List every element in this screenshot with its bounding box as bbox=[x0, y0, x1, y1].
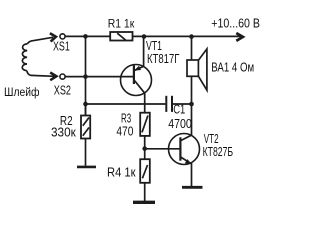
wire C1 left (base bus to C1) bbox=[86, 103, 166, 105]
loop bottom arrowhead bbox=[50, 73, 56, 81]
connector XS1 circle bbox=[60, 34, 65, 39]
svg-text:Шлейф: Шлейф bbox=[4, 85, 40, 99]
ground bar under R4 bbox=[133, 201, 155, 204]
svg-text:R1 1к: R1 1к bbox=[108, 17, 135, 31]
svg-text:R4 1к: R4 1к bbox=[107, 166, 136, 180]
wire R3 to R4 bbox=[144, 136, 146, 159]
capacitor C1 bbox=[166, 96, 172, 112]
connector XS2 circle bbox=[60, 74, 65, 79]
wire top rail left segment (XS1 to R1) bbox=[65, 35, 110, 37]
svg-text:VT1: VT1 bbox=[146, 39, 162, 53]
svg-text:XS2: XS2 bbox=[54, 84, 71, 98]
loop top lead bbox=[27, 37, 53, 44]
svg-text:ВА1 4 Ом: ВА1 4 Ом bbox=[211, 60, 254, 74]
wire R2 to ground bbox=[85, 139, 87, 166]
transistor VT2 circle bbox=[169, 134, 200, 165]
wire supply to speaker bbox=[191, 37, 193, 60]
VT1 lower lead diagonal bbox=[135, 81, 145, 94]
svg-text:VT2: VT2 bbox=[204, 132, 219, 146]
node A junction dot bbox=[83, 34, 88, 39]
svg-text:КТ817Г: КТ817Г bbox=[147, 52, 180, 66]
wire VT2 emitter to ground bbox=[191, 163, 193, 186]
speaker BA1 bbox=[187, 49, 207, 90]
ground bar under R2 bbox=[77, 166, 96, 169]
wire R4 to ground bbox=[144, 183, 146, 201]
loop top arrowhead bbox=[50, 33, 56, 41]
node B junction dot bbox=[142, 34, 147, 39]
junction dot at XS2 wire bbox=[83, 74, 88, 79]
speaker node junction dot bbox=[189, 34, 194, 39]
supply arrowhead bbox=[236, 33, 243, 41]
svg-text:R3: R3 bbox=[121, 112, 131, 126]
ground bar under VT2 bbox=[182, 186, 203, 189]
wire C1 right (C1 to collector line) bbox=[173, 103, 192, 105]
svg-text:4700: 4700 bbox=[168, 117, 192, 131]
junction dot C1/collector bbox=[189, 102, 194, 107]
resistor R2 bbox=[81, 116, 90, 139]
loop bottom lead bbox=[27, 71, 55, 77]
svg-text:КТ827Б: КТ827Б bbox=[203, 145, 234, 159]
svg-text:330к: 330к bbox=[51, 125, 76, 139]
wire XS2 to VT1 base bbox=[65, 76, 133, 78]
resistor R4 bbox=[140, 159, 150, 183]
wire VT1 to R3 bbox=[144, 93, 146, 113]
junction dot at C1 wire bbox=[83, 102, 88, 107]
wire to VT2 base bbox=[145, 148, 181, 150]
wire vertical base bus (node A down to R2) bbox=[85, 36, 87, 115]
VT2 emitter arrowhead bbox=[185, 159, 192, 164]
VT2 emitter diagonal bbox=[181, 157, 191, 163]
resistor R3 bbox=[140, 113, 150, 136]
loop coil (шлейф squiggle) bbox=[22, 44, 27, 71]
wire top rail right segment (R1 to supply arrow) bbox=[133, 35, 241, 37]
transistor VT1 circle bbox=[121, 65, 152, 96]
wire R2 top bbox=[85, 104, 87, 116]
resistor R1 bbox=[110, 32, 132, 41]
VT1 base bar bbox=[133, 66, 135, 85]
svg-text:XS1: XS1 bbox=[53, 40, 70, 54]
junction dot R3/R4/base bbox=[142, 146, 147, 151]
VT2 collector diagonal bbox=[181, 135, 191, 140]
VT1 collector wire up to node B bbox=[143, 37, 145, 67]
svg-text:470: 470 bbox=[116, 125, 133, 139]
svg-text:+10...60 В: +10...60 В bbox=[211, 16, 260, 30]
VT1 upper lead diagonal bbox=[134, 66, 143, 70]
wire speaker to VT2 collector bbox=[191, 76, 193, 135]
svg-text:С1: С1 bbox=[173, 102, 185, 116]
VT1 emitter arrowhead bbox=[134, 66, 141, 71]
VT2 base bar bbox=[179, 137, 181, 160]
